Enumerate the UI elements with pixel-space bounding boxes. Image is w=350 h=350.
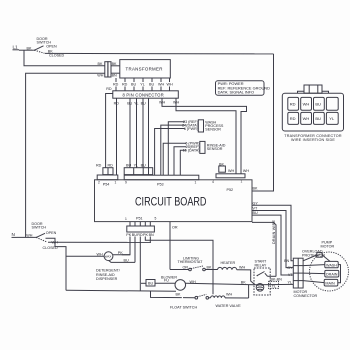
wire BN P51 / N switch to start relay xyxy=(48,237,246,285)
svg-text:BN: BN xyxy=(284,259,289,263)
8 pin connector J1 xyxy=(113,91,179,98)
overload protector xyxy=(302,249,330,261)
svg-text:SENSOR: SENSOR xyxy=(207,147,223,151)
svg-text:BK: BK xyxy=(98,62,103,66)
svg-text:WH: WH xyxy=(173,101,179,105)
rinse aid sensor wires to P53 xyxy=(163,143,186,175)
wire PK P51 to water valve xyxy=(145,237,213,295)
svg-text:BK: BK xyxy=(253,187,258,191)
wash process sensor B1 xyxy=(198,120,224,132)
pump motor main winding xyxy=(303,279,338,286)
svg-text:BU: BU xyxy=(131,83,136,87)
svg-text:FU: FU xyxy=(164,279,169,283)
pump motor drain winding xyxy=(303,270,339,277)
wire GY circuit board to motor connector xyxy=(252,201,293,260)
svg-text:WIRE INSERTION SIDE: WIRE INSERTION SIDE xyxy=(291,138,335,142)
transformer connector drawing (wire insertion side) xyxy=(282,85,343,142)
svg-text:GY: GY xyxy=(253,201,259,205)
svg-text:BN: BN xyxy=(149,233,154,237)
wire plug to transformer (upper) xyxy=(111,65,120,67)
water valve L1 coil xyxy=(209,292,249,308)
motor connector J2 xyxy=(284,258,317,298)
rinse aid sensor B2 xyxy=(200,141,226,153)
svg-text:BU: BU xyxy=(315,116,321,121)
svg-text:1: 1 xyxy=(125,217,127,221)
connector P54 xyxy=(97,175,118,187)
float switch S4 xyxy=(170,292,209,309)
svg-text:WH: WH xyxy=(303,102,310,107)
svg-text:WH: WH xyxy=(239,266,245,270)
wire BK-BN circuit board to start relay xyxy=(252,222,282,281)
svg-text:BK: BK xyxy=(241,280,246,284)
svg-text:BU: BU xyxy=(315,102,321,107)
wire WH 8 pin connector to P52 (inner) xyxy=(176,98,236,174)
transformer secondary pins with wire labels RD RD BU YL BU WH WH xyxy=(113,78,173,91)
svg-text:BU: BU xyxy=(253,211,258,215)
svg-text:P51: P51 xyxy=(136,216,143,220)
svg-text:TRANSFORMER: TRANSFORMER xyxy=(126,67,163,72)
svg-text:BU: BU xyxy=(148,281,153,285)
svg-text:RD: RD xyxy=(122,83,128,87)
svg-text:YL: YL xyxy=(134,164,139,168)
inline connectors RD RD above P54 xyxy=(96,164,113,175)
svg-text:L1: L1 xyxy=(13,45,19,50)
node N xyxy=(12,232,18,237)
svg-text:SWITCH: SWITCH xyxy=(32,225,47,229)
svg-text:BK: BK xyxy=(207,265,212,269)
svg-text:RELAY: RELAY xyxy=(255,264,267,268)
pump motor M3 dashed outline xyxy=(310,252,349,291)
svg-text:VT: VT xyxy=(288,273,293,277)
rinse aid sensor wire labels 6(PWR) 25(REF) 15(DATA) xyxy=(183,142,200,153)
svg-text:WH: WH xyxy=(226,292,232,296)
wire RD P51 to float switch line xyxy=(139,237,141,291)
heater R1 xyxy=(217,261,255,285)
svg-text:DISPENSER: DISPENSER xyxy=(96,277,118,281)
svg-text:8 PIN CONNECTOR: 8 PIN CONNECTOR xyxy=(123,92,164,97)
svg-text:HEATER: HEATER xyxy=(221,261,236,265)
wire OR circuit board to limiting thermostat xyxy=(170,222,189,270)
svg-text:DRAIN: DRAIN xyxy=(326,272,338,276)
wire labels WH WH at P52 xyxy=(228,169,249,173)
legend note box xyxy=(216,81,271,95)
start relay K1 xyxy=(254,260,276,295)
limiting thermostat S3 xyxy=(178,256,218,271)
svg-text:YL: YL xyxy=(287,281,292,285)
svg-text:CONNECTOR: CONNECTOR xyxy=(294,294,318,298)
svg-text:WH: WH xyxy=(228,169,234,173)
wire plug to transformer (lower) xyxy=(111,72,120,74)
dispenser wax motor M1 xyxy=(66,252,130,261)
svg-text:RD: RD xyxy=(106,87,112,91)
svg-text:9: 9 xyxy=(125,181,127,185)
inline connector BK at P52 xyxy=(219,162,226,172)
svg-text:WH: WH xyxy=(97,74,103,78)
svg-text:RD: RD xyxy=(113,83,119,87)
svg-text:RD: RD xyxy=(290,102,296,107)
svg-text:MAIN: MAIN xyxy=(325,281,335,285)
svg-text:RD: RD xyxy=(290,116,296,121)
wire VT circuit board to motor connector xyxy=(252,207,293,268)
wire joining winding commons xyxy=(338,265,341,283)
inline connector (transformer primary plug) xyxy=(105,62,111,77)
svg-text:CIRCUIT BOARD: CIRCUIT BOARD xyxy=(135,196,207,209)
wire WH 8 pin connector to P52 (outer) xyxy=(162,98,247,174)
svg-text:WH: WH xyxy=(97,252,103,256)
circuit board U1 xyxy=(95,180,253,222)
svg-text:OR: OR xyxy=(183,265,189,269)
wash process sensor wires to P53 xyxy=(155,122,185,176)
pump motor wash winding xyxy=(303,261,338,267)
svg-text:WH: WH xyxy=(190,280,196,284)
svg-text:WAX: WAX xyxy=(105,255,112,259)
svg-text:BU: BU xyxy=(126,164,131,168)
door switch S1 (upper, line side) xyxy=(34,37,65,57)
wash process sensor wire labels 23(REF) 24(DATA) 6(PWR) xyxy=(182,120,198,131)
svg-text:YL: YL xyxy=(140,83,145,87)
wire door switch output to right (L1 feed across top) xyxy=(45,52,274,55)
wire BU P51 to dispenser xyxy=(109,237,135,263)
svg-text:6 (PWR): 6 (PWR) xyxy=(184,127,198,131)
connector P52 xyxy=(212,174,245,192)
wire BU circuit board to motor connector xyxy=(252,211,293,275)
svg-text:WH: WH xyxy=(159,101,165,105)
wire PK P51 to dispenser xyxy=(122,237,130,255)
transformer T1 xyxy=(120,60,171,78)
svg-text:1: 1 xyxy=(195,181,197,185)
svg-text:WATER VALVE: WATER VALVE xyxy=(216,304,242,308)
wires BU YL BU from 8 pin connector down to P53 xyxy=(127,98,148,175)
svg-text:WH: WH xyxy=(167,83,173,87)
svg-text:N: N xyxy=(12,232,15,237)
wire WH neutral riser (N switch up to transformer) xyxy=(26,73,105,237)
dispenser label xyxy=(96,269,121,281)
svg-text:P52: P52 xyxy=(227,188,234,192)
svg-text:WASH: WASH xyxy=(326,263,337,267)
wire L1 drop to circuit board BK input xyxy=(252,54,274,191)
svg-text:PK: PK xyxy=(118,251,123,255)
svg-text:WH: WH xyxy=(303,116,310,121)
svg-text:1: 1 xyxy=(115,181,117,185)
svg-text:BU: BU xyxy=(149,83,154,87)
inline connectors BU YL BU above P53 xyxy=(124,164,153,175)
svg-text:BN: BN xyxy=(112,74,117,78)
wire L1 to door switch xyxy=(19,49,34,51)
svg-text:P54: P54 xyxy=(103,183,110,187)
svg-text:DRAIN WIRE: DRAIN WIRE xyxy=(272,220,276,244)
svg-text:BK: BK xyxy=(27,46,32,50)
svg-text:BU: BU xyxy=(124,258,129,262)
svg-text:BU: BU xyxy=(141,164,146,168)
door switch S2 (lower, neutral side) xyxy=(32,222,59,250)
svg-text:15 (DATA): 15 (DATA) xyxy=(183,149,200,153)
svg-text:OPEN: OPEN xyxy=(46,45,57,49)
svg-text:MOTOR: MOTOR xyxy=(321,245,335,249)
svg-text:RD: RD xyxy=(96,164,102,168)
svg-text:WH: WH xyxy=(26,233,32,237)
wire drop to float switch line xyxy=(151,291,182,298)
svg-text:BK: BK xyxy=(176,292,181,296)
inline connector BU (blower feed) xyxy=(141,280,175,287)
svg-text:FLOAT SWITCH: FLOAT SWITCH xyxy=(170,305,197,309)
connector P51 xyxy=(125,216,157,237)
svg-text:DATA: SIGNAL INFO: DATA: SIGNAL INFO xyxy=(218,90,254,95)
svg-text:THERMOSTAT: THERMOSTAT xyxy=(178,260,204,264)
svg-text:WH: WH xyxy=(158,83,164,87)
wire BK branch to transformer primary xyxy=(24,50,105,66)
svg-text:GY: GY xyxy=(287,266,293,270)
wire RD pin 2 down to P54 xyxy=(114,98,120,175)
wire right rail to pump motor line xyxy=(249,284,294,298)
svg-text:WH: WH xyxy=(243,169,249,173)
node L1 xyxy=(13,45,20,50)
thermal limiter TL xyxy=(269,281,279,288)
svg-text:OR: OR xyxy=(172,225,178,229)
wire N switch to dispenser rail xyxy=(46,238,67,290)
svg-text:OPEN: OPEN xyxy=(46,231,57,235)
pump motor label xyxy=(321,241,335,249)
connector P53 xyxy=(124,175,199,186)
blower motor M2 xyxy=(161,276,255,291)
wire dispenser rail bottom line xyxy=(66,289,176,292)
wire N to door switch xyxy=(17,236,36,238)
svg-text:5: 5 xyxy=(155,217,157,221)
svg-text:BK: BK xyxy=(112,62,117,66)
svg-text:4: 4 xyxy=(212,180,214,184)
svg-text:SENSOR: SENSOR xyxy=(205,127,221,131)
svg-text:2: 2 xyxy=(98,181,100,185)
wire RD from 8 pin connector left to P54 xyxy=(106,87,113,168)
svg-text:YL: YL xyxy=(329,116,335,121)
svg-text:P53: P53 xyxy=(157,183,164,187)
svg-text:RD: RD xyxy=(108,164,114,168)
